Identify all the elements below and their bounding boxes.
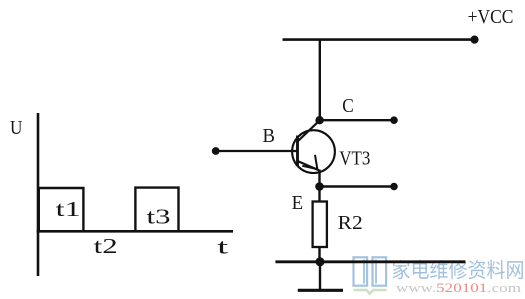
wire emitter stub: [320, 185, 395, 187]
wire ground rail: [275, 260, 465, 263]
svg-text:E: E: [292, 192, 304, 214]
svg-text:t2: t2: [94, 234, 118, 258]
node VCC terminal: [470, 36, 478, 44]
svg-text:U: U: [10, 117, 23, 139]
junction emitter node: [315, 182, 324, 191]
junction collector node: [315, 116, 323, 124]
svg-text:R2: R2: [338, 212, 363, 234]
transistor VT3: [292, 120, 335, 186]
watermark book logo: [354, 257, 387, 293]
ground: [298, 262, 343, 291]
svg-text:B: B: [262, 125, 275, 147]
waveform t axis: [37, 230, 233, 233]
wire VCC rail: [283, 38, 475, 41]
pulse t3: [135, 188, 178, 231]
waveform U axis: [37, 113, 40, 276]
node C terminal: [390, 116, 398, 124]
node base terminal: [212, 147, 220, 155]
svg-text:t: t: [217, 234, 228, 258]
pulse t1: [39, 188, 84, 231]
watermark text 家电维修资料网: [393, 260, 523, 280]
svg-text:VT3: VT3: [339, 147, 370, 169]
svg-text:t3: t3: [147, 204, 171, 228]
svg-text:www.520101.com: www.520101.com: [396, 281, 521, 295]
svg-text:t1: t1: [56, 197, 81, 221]
wire R2 to ground rail: [318, 247, 320, 262]
svg-text:+VCC: +VCC: [468, 6, 514, 28]
wire collector drop: [319, 40, 321, 121]
wire collector stub: [320, 119, 394, 121]
svg-text:C: C: [342, 95, 354, 117]
node E terminal: [390, 183, 398, 191]
wire base: [216, 150, 298, 152]
junction ground node: [316, 257, 325, 266]
wire emitter to R2: [318, 187, 320, 203]
resistor R2: [313, 202, 327, 248]
